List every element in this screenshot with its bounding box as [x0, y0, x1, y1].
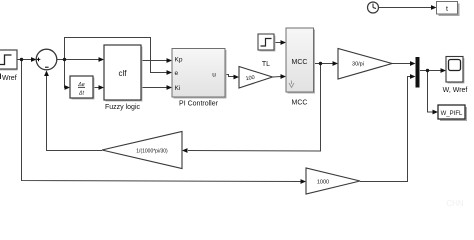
- svg-text:W, Wref: W, Wref: [443, 87, 468, 94]
- svg-text:1000: 1000: [317, 180, 329, 186]
- svg-text:clf: clf: [119, 69, 128, 78]
- svg-text:Wref: Wref: [2, 75, 17, 82]
- svg-text:30/pi: 30/pi: [352, 62, 364, 68]
- svg-text:CHN: CHN: [446, 199, 464, 208]
- svg-text:Fuzzy logic: Fuzzy logic: [105, 104, 141, 111]
- svg-text:Δt: Δt: [78, 91, 85, 97]
- svg-text:u: u: [212, 72, 216, 79]
- svg-text:W_PIFL: W_PIFL: [441, 111, 463, 117]
- svg-text:t: t: [446, 6, 448, 13]
- svg-text:MCC: MCC: [292, 100, 308, 107]
- svg-text:Ki: Ki: [175, 85, 181, 92]
- svg-text:Kp: Kp: [175, 57, 183, 64]
- svg-text:TL: TL: [262, 61, 270, 68]
- svg-text:1/(1000*pi/30): 1/(1000*pi/30): [136, 149, 168, 155]
- svg-text:PI Controller: PI Controller: [179, 101, 219, 108]
- svg-text:e: e: [175, 70, 179, 77]
- svg-text:MCC: MCC: [292, 59, 308, 66]
